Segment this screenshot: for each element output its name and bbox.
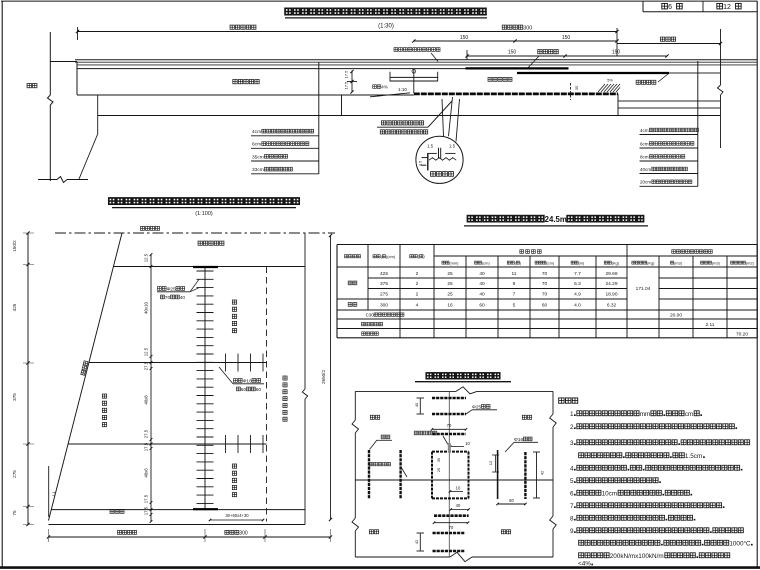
dashed pavement edge line: [266, 267, 268, 522]
base layer lines right side: [618, 94, 721, 116]
svg-text:24.5m: 24.5m: [545, 215, 567, 224]
bottom tie bars: [433, 516, 469, 551]
svg-text:2.11: 2.11: [706, 322, 715, 328]
svg-text:(cm): (cm): [482, 260, 490, 265]
svg-text:70: 70: [542, 281, 548, 287]
svg-text:(1:30): (1:30): [378, 24, 394, 30]
svg-text:(1:100): (1:100): [195, 211, 213, 217]
svg-text:5: 5: [570, 478, 574, 485]
svg-text:(Kg): (Kg): [612, 260, 620, 265]
svg-text:1.5: 1.5: [419, 161, 423, 166]
approach slab exposed top - bold segment A: [466, 67, 569, 69]
dim 40 bottom: [449, 503, 469, 511]
label Φ25拉杆 with leader: [466, 405, 497, 415]
svg-text:(cm): (cm): [546, 260, 554, 265]
svg-text:40cm: 40cm: [640, 167, 651, 172]
left pavement layer list: [251, 129, 319, 174]
label 混凝土搭板顶面铺装层 with leader: [394, 48, 440, 62]
slope labels 坡度4% 1:10: [370, 85, 410, 97]
svg-text:11: 11: [512, 271, 517, 277]
dimension row C 主车道: [617, 28, 722, 56]
right pavement layer list: [640, 128, 699, 186]
svg-text:60: 60: [241, 387, 247, 393]
label 中央分隔带: [198, 241, 224, 245]
svg-text:70: 70: [542, 292, 548, 298]
reserved groove U-shape: [390, 70, 438, 94]
joint filler gray bar: [448, 443, 451, 453]
middle dimension chain: [144, 253, 153, 523]
svg-text:4: 4: [570, 466, 574, 473]
road centerline dash-dot: [55, 232, 335, 234]
dim 60 right: [496, 498, 526, 505]
quantity table grid: [337, 245, 757, 338]
toe mini vertical with slope: [49, 466, 56, 517]
svg-text:20.00: 20.00: [670, 313, 682, 319]
svg-text:60: 60: [479, 303, 485, 309]
vertical label 混凝土埋板 upper: [232, 300, 236, 333]
svg-text:25: 25: [437, 468, 441, 472]
svg-text:C30: C30: [366, 313, 375, 318]
subbase bottom line full width: [98, 115, 721, 117]
notes header 附注：: [559, 398, 578, 403]
soil shoulder line 土路肩: [52, 509, 306, 513]
svg-text:(m2): (m2): [746, 260, 755, 265]
right dim line 2650/2: [321, 234, 332, 521]
table data rows: [348, 271, 748, 338]
svg-text:25: 25: [447, 292, 453, 298]
detail circle leaders: [442, 97, 460, 142]
svg-text:1.5: 1.5: [449, 144, 456, 149]
svg-text:6: 6: [570, 491, 574, 498]
svg-text:300: 300: [380, 303, 388, 309]
svg-text:70.20: 70.20: [736, 332, 748, 338]
svg-text:(mm): (mm): [449, 260, 459, 265]
left tie bars vertical: [369, 450, 401, 499]
pavement surface lines: [75, 60, 757, 65]
svg-text:40: 40: [479, 292, 485, 298]
svg-text:9: 9: [513, 281, 516, 287]
svg-text:425: 425: [380, 271, 388, 277]
svg-text:40: 40: [414, 402, 419, 407]
svg-text:200kN/mx100kN/m: 200kN/mx100kN/m: [610, 553, 664, 560]
svg-text:35: 35: [574, 85, 579, 90]
svg-text:2: 2: [570, 424, 574, 431]
dimension row D 150 150: [465, 50, 668, 61]
svg-text:(Kg): (Kg): [647, 260, 655, 265]
central joint square: [432, 452, 469, 499]
svg-text:(m): (m): [578, 260, 585, 265]
svg-text:425: 425: [12, 303, 17, 311]
right solid bar: [497, 450, 499, 499]
dim 42 right bracket: [533, 452, 545, 498]
svg-text:40x10: 40x10: [144, 302, 149, 314]
svg-text:17.5: 17.5: [344, 70, 349, 79]
svg-text:42: 42: [414, 539, 419, 544]
right hatched bar: [524, 452, 526, 499]
svg-text:1:10: 1:10: [398, 87, 407, 92]
svg-text:60: 60: [256, 387, 262, 393]
svg-text:4.9: 4.9: [574, 292, 581, 298]
left layer-list leader vertical: [318, 62, 320, 174]
dimension row A 桥头搭板长 / 埋板长度300: [76, 25, 619, 40]
svg-text:10: 10: [465, 441, 470, 446]
svg-text:7.7: 7.7: [574, 271, 581, 277]
right roadway edge with break: [718, 29, 724, 148]
joint label 胀缝 with leader: [377, 101, 452, 134]
svg-text:40: 40: [479, 271, 485, 277]
corner label 埋板 bottom-right: [501, 530, 510, 534]
svg-text:17.5: 17.5: [344, 81, 349, 90]
svg-text:300: 300: [239, 531, 248, 537]
detail circle 接缝大样: [416, 136, 463, 183]
svg-text:7: 7: [570, 503, 574, 510]
svg-text:35: 35: [437, 458, 441, 462]
plan title 主线整体式路基桥头搭板与沥青混凝土路面相接平面图: [109, 198, 299, 217]
svg-text:375: 375: [12, 393, 17, 401]
svg-text:70: 70: [165, 295, 171, 301]
svg-text:60: 60: [509, 498, 514, 503]
svg-text:33cm: 33cm: [252, 167, 264, 173]
svg-text:1.5cm: 1.5cm: [685, 453, 702, 460]
right layer-list leader vertical: [697, 61, 699, 187]
detail center line: [448, 391, 450, 557]
label 搭板Φ25拉杆 长70间距40: [157, 279, 199, 301]
asphalt wedge hatch: [598, 79, 620, 93]
plan top edge: [113, 266, 305, 268]
svg-text:25: 25: [447, 271, 453, 277]
svg-text:2: 2: [416, 281, 419, 287]
svg-text:9: 9: [570, 528, 574, 535]
svg-text:1:1: 1:1: [52, 492, 56, 497]
svg-text:40x8: 40x8: [144, 395, 149, 405]
svg-text:4: 4: [416, 303, 419, 309]
svg-text:1.5: 1.5: [427, 144, 434, 149]
svg-text:275: 275: [12, 470, 17, 478]
layer end vertical: [341, 95, 343, 116]
corner label 搭板 bottom-left: [369, 530, 378, 534]
svg-text:42: 42: [540, 470, 545, 475]
svg-text:6: 6: [668, 4, 672, 11]
cross-section title 主线整体式路基桥头搭板与沥青混凝土路面相接横断面图: [285, 8, 487, 29]
transverse joint 1: [89, 362, 267, 364]
svg-text:4cm: 4cm: [252, 129, 261, 135]
svg-text:6.32: 6.32: [607, 303, 617, 309]
label 混凝土搭板 inside section: [233, 79, 259, 83]
svg-text:70: 70: [542, 271, 548, 277]
dimension row B 150 150: [412, 35, 618, 42]
dim 17.5 17.5 vertical: [344, 70, 358, 94]
dim 12 right: [488, 455, 499, 472]
dim 10 below square: [449, 486, 463, 493]
plan bottom edge: [49, 524, 306, 526]
svg-text:75: 75: [12, 510, 17, 516]
bottom dimension chain 桥头搭板 埋板长300: [47, 529, 332, 542]
embankment toe diagonal 坡脚线: [49, 233, 123, 521]
buried slab top - bold segment B: [517, 72, 721, 74]
svg-text:2: 2: [416, 271, 419, 277]
svg-text:40: 40: [456, 503, 461, 508]
svg-text:10cm: 10cm: [602, 491, 618, 498]
svg-text:40: 40: [180, 295, 186, 301]
svg-text:4cm: 4cm: [640, 128, 649, 133]
left dimension chain: [12, 231, 34, 526]
dim 10 above square: [449, 441, 471, 448]
svg-text:<4%: <4%: [578, 560, 591, 567]
svg-text:17.5: 17.5: [144, 506, 149, 515]
svg-text:7: 7: [513, 292, 516, 298]
svg-text:375: 375: [380, 281, 388, 287]
label 企口缝做法 top with leader: [414, 431, 448, 444]
svg-text:6cm: 6cm: [252, 142, 261, 148]
svg-text:24.29: 24.29: [605, 281, 617, 287]
svg-text:5: 5: [513, 303, 516, 309]
svg-text:300: 300: [523, 26, 532, 32]
page number box: 第 6 页 / 共 12 页: [643, 1, 757, 12]
svg-text:60: 60: [542, 303, 548, 309]
vertical label 混凝土埋板 lower: [232, 464, 236, 497]
label 企口缝做法 left: [369, 462, 407, 477]
svg-text:12: 12: [723, 4, 731, 11]
abutment 桥台 outline: [48, 32, 98, 181]
svg-text:27.5: 27.5: [144, 361, 149, 370]
dashed depth line with 35: [571, 83, 580, 100]
svg-text:17.5: 17.5: [144, 442, 149, 451]
label 拉杆 left: [370, 435, 393, 449]
corner label 埋板 top-right: [522, 415, 531, 419]
label 埋板Φ16拉杆 长60间距60: [219, 367, 264, 393]
ground line with break: [38, 177, 88, 183]
svg-text:(m3): (m3): [674, 260, 683, 265]
label Φ16拉杆 right with leader: [505, 437, 538, 452]
table title 主线整体式路基（含幅24.5m）一幅桥头工程数量表: [464, 215, 648, 226]
svg-text:16: 16: [447, 303, 453, 309]
svg-text:12.5: 12.5: [144, 347, 149, 356]
svg-text:8: 8: [570, 516, 574, 523]
corner label 搭板 top-left: [370, 415, 379, 419]
svg-text:25: 25: [447, 281, 453, 287]
slab bottom line: [77, 94, 414, 96]
svg-text:275: 275: [380, 292, 388, 298]
svg-text:150: 150: [460, 35, 469, 41]
svg-text:150: 150: [612, 50, 621, 56]
top tie bars: [432, 398, 466, 434]
svg-text:10: 10: [456, 486, 461, 491]
tie-bar combs at joints: [226, 354, 264, 454]
notes text lines: [570, 411, 753, 568]
rebar mesh dotted strip: [414, 93, 618, 96]
svg-text:70: 70: [449, 525, 454, 530]
svg-text:150: 150: [508, 50, 517, 56]
label 沥青搭缝 upper with leader: [528, 50, 558, 68]
label 路中心线: [141, 226, 160, 230]
table headers: [345, 250, 755, 266]
vertical label 混凝土搭板: [102, 394, 106, 427]
dim 30+60x4+30: [209, 513, 265, 521]
svg-text:40x6: 40x6: [144, 468, 149, 478]
detail frame with break marks: [352, 387, 556, 562]
svg-text:70: 70: [447, 423, 452, 428]
label 沥青搭缝 right with leader: [636, 74, 668, 84]
svg-text:4.0: 4.0: [574, 303, 581, 309]
svg-text:4%: 4%: [381, 85, 388, 90]
svg-text:cm: cm: [685, 411, 693, 418]
detail title 搭板与埋板接缝平面图: [415, 373, 511, 382]
approach slab top line (thin left part): [77, 68, 466, 70]
svg-text:5%: 5%: [607, 79, 613, 83]
svg-text:20cm: 20cm: [640, 180, 651, 185]
svg-text:18.90: 18.90: [605, 292, 617, 298]
detail mid horizontal line: [355, 479, 553, 481]
svg-text:1: 1: [570, 411, 574, 418]
plan right edge with break: [302, 233, 307, 525]
rebar ladder at slab end joint: [193, 267, 218, 510]
svg-text:3: 3: [570, 440, 574, 447]
svg-text:2650/2: 2650/2: [321, 370, 326, 384]
svg-text:12: 12: [488, 460, 493, 465]
svg-text:150/2: 150/2: [12, 240, 17, 252]
svg-text:12.5: 12.5: [144, 253, 149, 262]
svg-text:2: 2: [416, 292, 419, 298]
dim 70 bottom: [433, 521, 470, 530]
svg-text:17.5: 17.5: [144, 494, 149, 503]
svg-text:(m3): (m3): [712, 260, 721, 265]
svg-text:1000°C: 1000°C: [729, 540, 751, 548]
svg-text:mm: mm: [640, 411, 651, 418]
dim 40 top bracket: [414, 398, 424, 414]
label 混凝土埋板 mid section: [488, 77, 512, 81]
svg-text:171.04: 171.04: [636, 286, 651, 292]
abutment label 桥台: [27, 83, 37, 87]
svg-text:35cm: 35cm: [252, 154, 264, 160]
svg-text:40: 40: [479, 281, 485, 287]
svg-text:6cm: 6cm: [640, 141, 649, 146]
svg-text:27.5: 27.5: [144, 429, 149, 438]
svg-text:150: 150: [562, 35, 571, 41]
transverse joint 2: [68, 443, 267, 445]
svg-text:)(cm): )(cm): [386, 254, 396, 259]
vertical label 沥青混凝土路面: [283, 376, 287, 421]
svg-text:29.69: 29.69: [605, 271, 617, 277]
dim 42 bottom-left bracket: [414, 533, 424, 551]
svg-text:6.3: 6.3: [574, 281, 581, 287]
dim 70 top: [431, 423, 468, 431]
svg-text:8cm: 8cm: [640, 154, 649, 159]
svg-text:30+60x4+30: 30+60x4+30: [225, 513, 249, 518]
